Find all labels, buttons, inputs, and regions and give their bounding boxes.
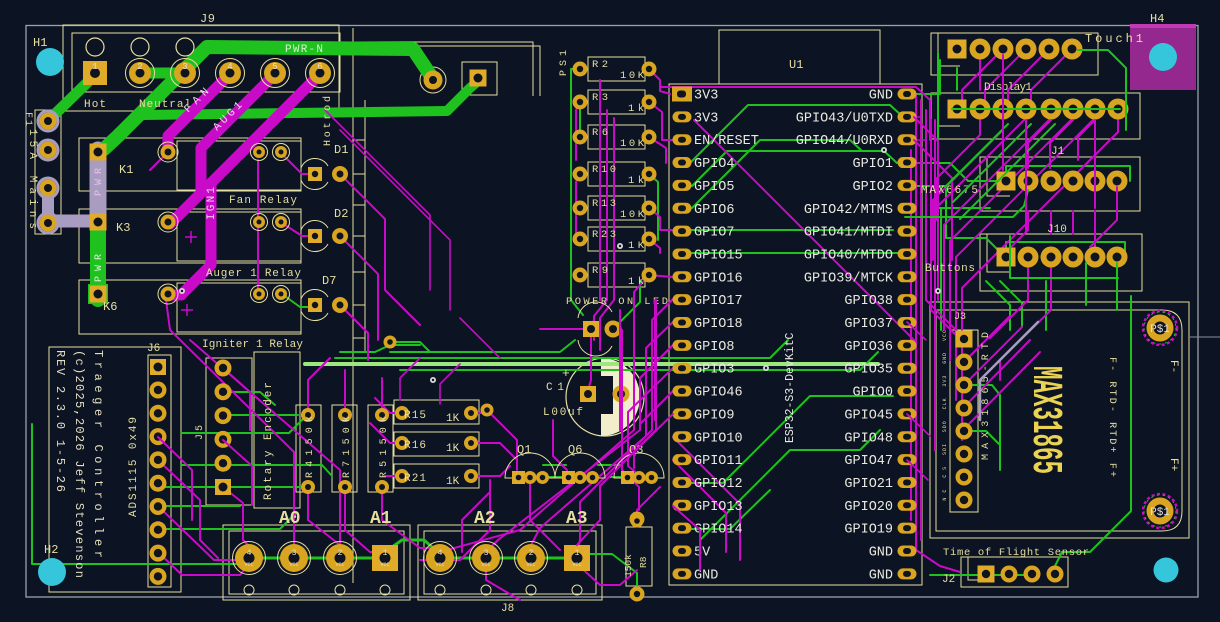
- svg-text:K3: K3: [116, 221, 130, 235]
- magenta bus drop2: [440, 364, 460, 404]
- green bar2 diagonal to pad: [447, 82, 477, 111]
- svg-text:1: 1: [92, 62, 97, 72]
- relay K6 inner box: [177, 283, 301, 332]
- svg-text:GPIO39/MTCK: GPIO39/MTCK: [804, 271, 894, 286]
- magenta bundle v5: [910, 150, 912, 520]
- fuse F1 pad 1: [40, 113, 57, 130]
- magenta K3 to D2: [282, 223, 312, 236]
- resistor stack right pad y69: [642, 62, 657, 77]
- green vertical right of U1: [938, 53, 990, 208]
- svg-text:GPIO10: GPIO10: [694, 431, 743, 446]
- green GPIO15 to MTDO row: [688, 252, 907, 254]
- H4 purple square: [1130, 24, 1196, 90]
- magenta Display fan 3: [938, 118, 1026, 300]
- green trace J5 pin: [223, 392, 275, 405]
- svg-text:U1: U1: [789, 58, 803, 72]
- svg-text:F1: F1: [22, 112, 33, 126]
- svg-text:PWR: PWR: [94, 168, 105, 196]
- svg-text:GPIO42/MTMS: GPIO42/MTMS: [804, 203, 893, 218]
- transistor Q6: [555, 453, 605, 484]
- green into MAX module: [1045, 281, 1047, 330]
- magenta R4 up: [308, 358, 330, 412]
- connector J6 box: [148, 355, 171, 587]
- svg-text:A0: A0: [279, 509, 301, 529]
- via small (182,291): [179, 288, 185, 294]
- magenta bundle right v2: [920, 100, 922, 540]
- resistor stack box row 1: [588, 57, 645, 81]
- fuse F1 pad 2: [40, 142, 57, 159]
- svg-text:VCC: VCC: [572, 562, 581, 568]
- relay K6 coil pad A: [251, 286, 268, 303]
- magenta U1 lower diag: [673, 437, 740, 560]
- green trace Q pads: [547, 476, 567, 478]
- magenta Buttons down: [990, 263, 1028, 338]
- resistor stack left pad y174: [573, 167, 588, 182]
- resistor stack box row 7: [588, 263, 645, 287]
- svg-text:Time of Flight Sensor: Time of Flight Sensor: [943, 547, 1089, 559]
- magenta GND43 down: [914, 117, 938, 205]
- svg-text:SDO: SDO: [942, 421, 948, 432]
- svg-text:GPIO46: GPIO46: [694, 386, 743, 401]
- magenta R16 left: [370, 423, 402, 443]
- MAX31865 P$1 pad: [1143, 494, 1177, 528]
- resistor stack right pad y208: [642, 201, 657, 216]
- green Buttons to J3 b: [1000, 281, 1022, 326]
- resistor stack box row 5: [588, 196, 645, 220]
- resistor stack left pad y239: [573, 232, 588, 247]
- svg-text:2: 2: [137, 62, 142, 72]
- svg-text:GND: GND: [869, 568, 893, 583]
- svg-text:3V3: 3V3: [694, 111, 718, 126]
- svg-text:A2: A2: [474, 509, 496, 529]
- connector J10 Buttons pads: [997, 248, 1016, 267]
- svg-text:3: 3: [292, 549, 297, 558]
- svg-text:Auger 1 Relay: Auger 1 Relay: [206, 268, 301, 280]
- magenta U0RXD down: [914, 140, 952, 260]
- green vertical by resistor stack: [571, 69, 583, 315]
- capacitor C1 pads: [580, 386, 630, 403]
- green J3 branch: [964, 385, 1000, 470]
- magenta vertical x614: [600, 118, 614, 350]
- green Buttons loop: [1006, 242, 1125, 257]
- svg-text:GPIO17: GPIO17: [694, 294, 743, 309]
- svg-text:ESP32-S3-DevKitC: ESP32-S3-DevKitC: [784, 332, 797, 443]
- green trace encoder row2: [181, 465, 332, 476]
- fuse F1 pad 3: [40, 180, 57, 197]
- magenta Q1 to R15: [479, 413, 517, 470]
- svg-text:GPIO13: GPIO13: [694, 500, 743, 515]
- svg-text:L00uf: L00uf: [543, 407, 583, 419]
- green GPIO5 diag y151: [692, 151, 897, 186]
- green from R10: [649, 174, 658, 240]
- svg-text:J6: J6: [147, 343, 160, 355]
- magenta J3 diag 5: [964, 352, 1040, 429]
- title text block box: [49, 347, 181, 592]
- connector Display1 box: [931, 93, 1140, 139]
- resistor stack right pad y137: [642, 130, 657, 145]
- svg-text:3V3: 3V3: [694, 89, 718, 104]
- svg-text:GPIO6: GPIO6: [694, 203, 735, 218]
- svg-text:1: 1: [383, 549, 388, 558]
- svg-text:GPIO45: GPIO45: [844, 408, 893, 423]
- magenta D7 out: [340, 305, 368, 360]
- resistor pad bottom x345: [338, 480, 352, 494]
- svg-text:J3: J3: [954, 312, 966, 323]
- green through Display pads: [952, 108, 1120, 110]
- resistor stack box row 2: [588, 90, 645, 114]
- via small (938,291): [935, 288, 941, 294]
- green trace to D7: [282, 294, 313, 307]
- relay K1 inner box: [177, 141, 301, 190]
- resistor pad top x382: [375, 408, 389, 422]
- magenta J3 diag 4: [964, 340, 1030, 407]
- svg-text:Hot: Hot: [84, 99, 106, 111]
- module MAX31865 outer box: [930, 302, 1189, 538]
- green bus line 2: [400, 352, 878, 370]
- magenta to A0 pad3: [190, 340, 340, 552]
- via pad PWR-N: [424, 71, 443, 90]
- svg-text:VCC: VCC: [481, 562, 490, 568]
- svg-text:GPIO1: GPIO1: [852, 157, 893, 172]
- green bus line 3: [390, 340, 575, 352]
- svg-text:IGN1: IGN1: [206, 187, 218, 220]
- green highlighted bus line: [305, 362, 878, 366]
- magenta diag from Hotrod: [325, 110, 430, 290]
- svg-text:3: 3: [182, 62, 187, 72]
- power ON LED: [578, 302, 622, 356]
- magenta bottom middle: [420, 480, 490, 560]
- magenta to 3V3 pad1: [660, 87, 670, 94]
- green bus entry: [340, 345, 420, 352]
- connector J9 pad 1 (Hot): [83, 61, 107, 85]
- magenta bundle extra v: [577, 300, 656, 545]
- resistor R16 box: [394, 432, 479, 456]
- magenta R5 up: [381, 378, 383, 412]
- green vertical x941: [940, 208, 942, 330]
- connector A0/A1 big pads: [233, 542, 266, 575]
- resistor pad top x345: [338, 408, 352, 422]
- magenta U1 to A3: [577, 299, 673, 552]
- resistor stack left pad y137: [573, 130, 588, 145]
- magenta bundle extra v3: [621, 330, 623, 430]
- magenta diag 2: [340, 130, 450, 310]
- svg-text:P$1: P$1: [1150, 324, 1170, 336]
- mounting hole H4: [1149, 43, 1177, 71]
- svg-text:6: 6: [317, 62, 322, 72]
- magenta Display to J1 c: [1078, 120, 1095, 160]
- svg-text:D2: D2: [334, 207, 348, 221]
- resistor stack right pad y275: [642, 268, 657, 283]
- green second power bar: [143, 111, 447, 115]
- svg-text:GPIO40/MTDO: GPIO40/MTDO: [804, 248, 893, 263]
- green MAX to J2 long trace: [1055, 296, 1131, 566]
- svg-text:GND: GND: [869, 546, 893, 561]
- magenta Touch fan 3: [1008, 49, 1049, 109]
- resistor right pad y443: [464, 436, 478, 450]
- connector J5 pads: [215, 360, 232, 377]
- magenta A2 down: [486, 564, 520, 600]
- green trace J6 pin: [158, 505, 240, 507]
- svg-text:R21: R21: [404, 473, 426, 485]
- connector A0/A1 box: [223, 525, 410, 600]
- svg-text:Q1: Q1: [517, 443, 531, 457]
- green trace J9 pad1 to F1: [48, 75, 95, 122]
- svg-text:GPIO21: GPIO21: [844, 477, 893, 492]
- magenta D2 out: [340, 236, 378, 340]
- svg-text:D1: D1: [334, 143, 348, 157]
- magenta J5 down: [223, 487, 255, 552]
- svg-text:GPIO48: GPIO48: [844, 431, 893, 446]
- magenta R9 to GPIO15: [649, 275, 672, 277]
- green bus line 1: [335, 340, 788, 358]
- svg-text:GPIO41/MTDI: GPIO41/MTDI: [804, 226, 893, 241]
- magenta J3 diag 3: [958, 327, 1022, 385]
- relay K1 box: [79, 138, 301, 191]
- magenta R21 left: [385, 475, 402, 477]
- magenta long diagonal across U1: [694, 120, 916, 342]
- rotary encoder box: [254, 352, 300, 508]
- magenta K6 to A0 pad2: [166, 300, 294, 552]
- PS1 power section outline: [356, 42, 540, 96]
- magenta R6 out: [649, 137, 666, 163]
- green GPIO12 diag: [688, 396, 893, 483]
- svg-text:GPIO35: GPIO35: [844, 363, 893, 378]
- svg-text:GPIO12: GPIO12: [694, 477, 743, 492]
- J9 unplated octagon: [176, 38, 194, 56]
- magenta J5 up: [223, 368, 250, 430]
- svg-text:GND: GND: [869, 89, 893, 104]
- svg-text:PS1: PS1: [559, 50, 570, 76]
- connector J9 pad 2: [126, 59, 155, 88]
- magenta bundle to J3 pad1: [926, 110, 964, 338]
- green trace from via: [390, 342, 430, 352]
- svg-text:REV 2.3.0 1-5-26: REV 2.3.0 1-5-26: [53, 350, 67, 492]
- via small (620,246): [617, 243, 623, 249]
- magenta Display pad down b: [1094, 120, 1096, 208]
- magenta J1 to J10: [1090, 187, 1117, 247]
- svg-text:P$1: P$1: [1150, 507, 1170, 519]
- connector J9 pad 3: [171, 59, 200, 88]
- diode D7: [301, 289, 348, 320]
- green GPIO4 to GPIO43: [690, 105, 902, 163]
- relay K1 input pad: [158, 142, 178, 162]
- svg-text:Fan Relay: Fan Relay: [229, 195, 297, 207]
- svg-text:SDI: SDI: [942, 444, 948, 455]
- gray trace diagonal near J3: [998, 322, 1038, 362]
- svg-text:GPIO3: GPIO3: [694, 363, 735, 378]
- svg-text:VCC: VCC: [289, 562, 298, 568]
- svg-text:10K: 10K: [620, 138, 645, 150]
- F1 pad courtyard rings: [38, 111, 58, 233]
- magenta bus drop: [400, 358, 420, 400]
- magenta U1 to A2 pad3: [531, 322, 673, 552]
- magenta bundle extra v2: [619, 310, 621, 430]
- svg-text:Buttons: Buttons: [925, 263, 975, 275]
- magenta Touch fan 4: [1031, 49, 1072, 109]
- svg-text:GPIO47: GPIO47: [844, 454, 893, 469]
- connector J9 pad 6: [306, 59, 335, 88]
- connector J9 inner box: [72, 33, 340, 92]
- magenta Display fan 5: [950, 118, 1073, 360]
- svg-text:GPIO9: GPIO9: [694, 408, 735, 423]
- magenta bundle extra v4: [654, 300, 656, 420]
- svg-text:R8: R8: [638, 556, 649, 568]
- connector J3 pads: [956, 331, 973, 348]
- resistor R8 bottom pad: [630, 587, 645, 602]
- magenta U1 lower diag2: [673, 460, 726, 552]
- svg-text:GPIO19: GPIO19: [844, 523, 893, 538]
- pad bracket: [462, 62, 497, 95]
- gray PWR trace horizontal: [48, 215, 98, 228]
- connector J8 A2/A3 box: [418, 525, 602, 600]
- module U1 top box: [719, 30, 880, 84]
- relay K3 square pad: [90, 214, 107, 231]
- svg-text:GND: GND: [694, 568, 718, 583]
- magenta vertical x600: [599, 80, 601, 300]
- mounting hole H1: [36, 48, 64, 76]
- magenta Display fan 7: [962, 118, 1118, 440]
- resistor R5 box: [368, 405, 393, 492]
- green trace bottom-left bus: [32, 424, 248, 564]
- relay K6 square pad: [90, 286, 107, 303]
- magenta J6 to A0: [158, 552, 249, 575]
- svg-text:GPIO18: GPIO18: [694, 317, 743, 332]
- magenta to A2 pad2: [486, 345, 673, 552]
- svg-text:H1: H1: [33, 36, 47, 50]
- svg-text:VCC: VCC: [380, 562, 389, 568]
- magenta coil pads vertical: [257, 160, 259, 288]
- svg-text:(c)2025,2026 Jeff Stevenson: (c)2025,2026 Jeff Stevenson: [72, 350, 86, 578]
- svg-text:F+: F+: [1167, 458, 1179, 471]
- resistor stack box row 6: [588, 227, 645, 251]
- resistor left pad y443: [395, 436, 409, 450]
- svg-text:R15: R15: [404, 410, 426, 422]
- green Display diag a: [945, 124, 1008, 187]
- magenta A2 up: [462, 492, 490, 552]
- svg-text:H2: H2: [44, 543, 58, 557]
- resistor stack left pad y275: [573, 268, 588, 283]
- fuse F1 pad 4: [40, 215, 57, 232]
- gray PWR trace F1 pads 3-4: [42, 188, 54, 223]
- magenta Display to J1 b: [1050, 120, 1073, 168]
- cursor crosshair line: [1190, 336, 1220, 338]
- green Touch to right: [1078, 50, 1126, 130]
- resistor R21 box: [394, 464, 479, 488]
- connector J1 MAX6675 box: [980, 157, 1140, 211]
- svg-text:GPIO7: GPIO7: [694, 226, 735, 241]
- svg-text:GPIO44/U0RXD: GPIO44/U0RXD: [796, 134, 893, 149]
- svg-text:1K: 1K: [446, 413, 460, 425]
- resistor right pad y413: [464, 406, 478, 420]
- magenta resistor to A2 pad1: [440, 275, 649, 552]
- connector J3 box: [950, 330, 978, 512]
- svg-text:Igniter 1 Relay: Igniter 1 Relay: [202, 339, 303, 351]
- magenta C1 down: [620, 401, 622, 430]
- connector J9 pad 5: [261, 59, 290, 88]
- transistor Q3: [614, 453, 664, 484]
- resistor stack box row 3: [588, 125, 645, 149]
- svg-text:GPIO14: GPIO14: [694, 523, 743, 538]
- magenta J1-J10 link: [1072, 211, 1074, 234]
- magenta J3 diag 2: [964, 316, 1010, 362]
- module U1 main box: [669, 84, 922, 585]
- svg-text:PWR: PWR: [94, 254, 105, 282]
- connector Touch1 box: [931, 33, 1098, 75]
- magenta J6 diag: [158, 460, 218, 558]
- magenta bundle v6: [934, 120, 936, 450]
- svg-text:VCC: VCC: [942, 330, 948, 341]
- magenta R5 down: [382, 492, 440, 548]
- magenta R13 to GPIO7: [649, 208, 672, 230]
- svg-text:15A Mains: 15A Mains: [26, 129, 38, 229]
- magenta Q1 down: [530, 484, 560, 550]
- svg-text:3: 3: [484, 549, 489, 558]
- svg-text:10K: 10K: [620, 209, 645, 221]
- green trace to R4 bottom: [158, 486, 300, 488]
- magenta to LED pad: [540, 328, 586, 330]
- svg-text:GPIO20: GPIO20: [844, 500, 893, 515]
- via (487,410): [481, 404, 494, 417]
- svg-text:J10: J10: [1047, 224, 1067, 236]
- mounting hole H2: [38, 558, 66, 586]
- svg-text:VCC: VCC: [526, 562, 535, 568]
- svg-text:GND: GND: [942, 353, 948, 364]
- svg-text:VCC: VCC: [244, 562, 253, 568]
- resistor R7 box: [332, 405, 357, 492]
- relay K3 box: [79, 209, 301, 263]
- svg-text:+: +: [562, 366, 570, 381]
- resistor stack box row 4: [588, 162, 645, 186]
- relay K6 input pad: [158, 284, 178, 304]
- svg-text:J2: J2: [942, 574, 955, 586]
- svg-text:K6: K6: [103, 300, 117, 314]
- resistor pad bottom x382: [375, 480, 389, 494]
- connector J6 pads: [150, 359, 166, 375]
- magenta R16 right: [471, 443, 516, 459]
- svg-text:GPIO43/U0TXD: GPIO43/U0TXD: [796, 111, 893, 126]
- gray trace vertical near J3: [980, 362, 998, 420]
- green J3 branch2: [964, 431, 1000, 445]
- resistor left pad y413: [395, 406, 409, 420]
- diode D1: [301, 158, 348, 189]
- svg-text:ADS1115 0x49: ADS1115 0x49: [128, 417, 140, 517]
- connector J9 pad 4: [216, 59, 245, 88]
- svg-text:A1: A1: [370, 509, 392, 529]
- resistor stack left pad y69: [573, 62, 588, 77]
- resistor pad bottom x308: [301, 480, 315, 494]
- svg-text:J9: J9: [200, 12, 215, 26]
- svg-text:H4: H4: [1150, 12, 1164, 26]
- via small (766,368): [763, 365, 769, 371]
- svg-text:A3: A3: [566, 509, 588, 529]
- svg-text:J1: J1: [1051, 146, 1065, 158]
- green trace Q pads2: [610, 476, 628, 478]
- magenta Display fan 4: [944, 118, 1051, 330]
- magenta to Q3: [622, 430, 639, 510]
- svg-text:R23: R23: [592, 229, 616, 241]
- svg-text:MAX31865: MAX31865: [1020, 366, 1068, 474]
- green lower diag: [700, 430, 880, 540]
- green trace to resistor tops: [223, 414, 298, 416]
- gray PWR trace vertical to K1: [90, 150, 107, 221]
- magenta GPIO46 out: [640, 391, 673, 424]
- magenta R23 out: [649, 239, 660, 253]
- green GND up: [914, 60, 940, 94]
- magenta Buttons down2: [1000, 263, 1051, 380]
- resistor stack left pad y102: [573, 95, 588, 110]
- via (637,521): [631, 515, 644, 528]
- svg-text:10K: 10K: [620, 70, 645, 82]
